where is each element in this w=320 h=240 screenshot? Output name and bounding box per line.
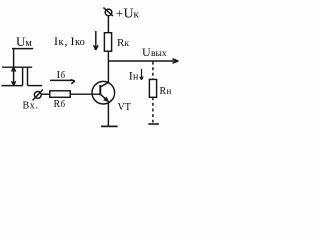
- ground bar: [101, 125, 118, 127]
- label Ik, Iko: [54, 34, 85, 48]
- wire: output with arrow (Uvyx): [108, 59, 178, 63]
- svg-text:ко: ко: [75, 37, 85, 48]
- label In with down arrow: [129, 69, 139, 83]
- underline of Um label: [12, 48, 33, 50]
- input pulse waveform top level line: [2, 66, 32, 68]
- svg-text:R: R: [54, 99, 61, 110]
- svg-text:н: н: [133, 72, 139, 83]
- +Uk terminal slash: [103, 8, 113, 16]
- wire: Rk up to +Uk terminal: [107, 16, 109, 33]
- label Rb: [54, 99, 66, 110]
- transistor collector diagonal: [101, 82, 109, 87]
- label Rk: [117, 37, 130, 49]
- input pulse waveform right edge: [27, 67, 29, 85]
- input terminal slash: [33, 90, 43, 101]
- svg-text:I: I: [54, 34, 58, 48]
- svg-text:м: м: [25, 38, 32, 49]
- input pulse waveform base line (right): [28, 85, 43, 87]
- wire: leader from Um underline down to pulse top level: [13, 49, 15, 68]
- svg-text:к: к: [125, 38, 130, 48]
- wire: output node up to Rk: [107, 51, 109, 61]
- wire: Rb to transistor base: [70, 93, 100, 95]
- svg-text:к: к: [134, 9, 140, 21]
- label VT: [118, 102, 131, 113]
- svg-text:б: б: [61, 99, 66, 109]
- svg-text:I: I: [71, 34, 75, 48]
- label Vx (input): [23, 101, 39, 112]
- svg-text:,: ,: [65, 34, 68, 48]
- transistor emitter diagonal with arrow: [101, 95, 109, 102]
- input pulse waveform base line (left): [2, 85, 23, 87]
- label Rn: [160, 86, 172, 97]
- svg-text:вых: вых: [151, 49, 167, 59]
- dashed wire: output node down to Rn: [152, 62, 154, 80]
- label +Uk: [116, 7, 140, 22]
- resistor Rk: [104, 33, 111, 52]
- label Uvyx: [142, 45, 167, 59]
- svg-text:U: U: [124, 7, 134, 22]
- amplitude double arrow Um: [12, 67, 16, 85]
- bottom terminal bar under Rn: [148, 123, 159, 125]
- resistor Rb: [50, 91, 70, 98]
- dashed wire: Rn down to bottom bar: [152, 97, 154, 122]
- transistor VT circle: [92, 81, 115, 104]
- +Uk terminal circle: [105, 9, 112, 16]
- svg-text:н: н: [167, 86, 172, 96]
- label Um: [16, 34, 32, 49]
- load current down arrow glyph: [140, 69, 143, 80]
- transistor base bar: [99, 85, 101, 95]
- input pulse waveform left edge: [22, 67, 24, 85]
- svg-text:VT: VT: [118, 102, 131, 113]
- svg-text:U: U: [142, 45, 151, 59]
- resistor Rn: [149, 79, 156, 97]
- svg-text:R: R: [160, 86, 167, 97]
- base current arrow: [50, 80, 75, 84]
- svg-text:+: +: [116, 7, 123, 21]
- wire: collector up to output node: [107, 61, 109, 83]
- input terminal circle: [34, 92, 41, 99]
- svg-text:Вх.: Вх.: [23, 101, 39, 112]
- collector current down arrow: [94, 31, 98, 50]
- label Ib with arrow: [57, 69, 66, 81]
- wire: input terminal to Rb: [41, 93, 50, 95]
- svg-text:б: б: [61, 70, 66, 80]
- wire: emitter down to ground: [107, 103, 109, 126]
